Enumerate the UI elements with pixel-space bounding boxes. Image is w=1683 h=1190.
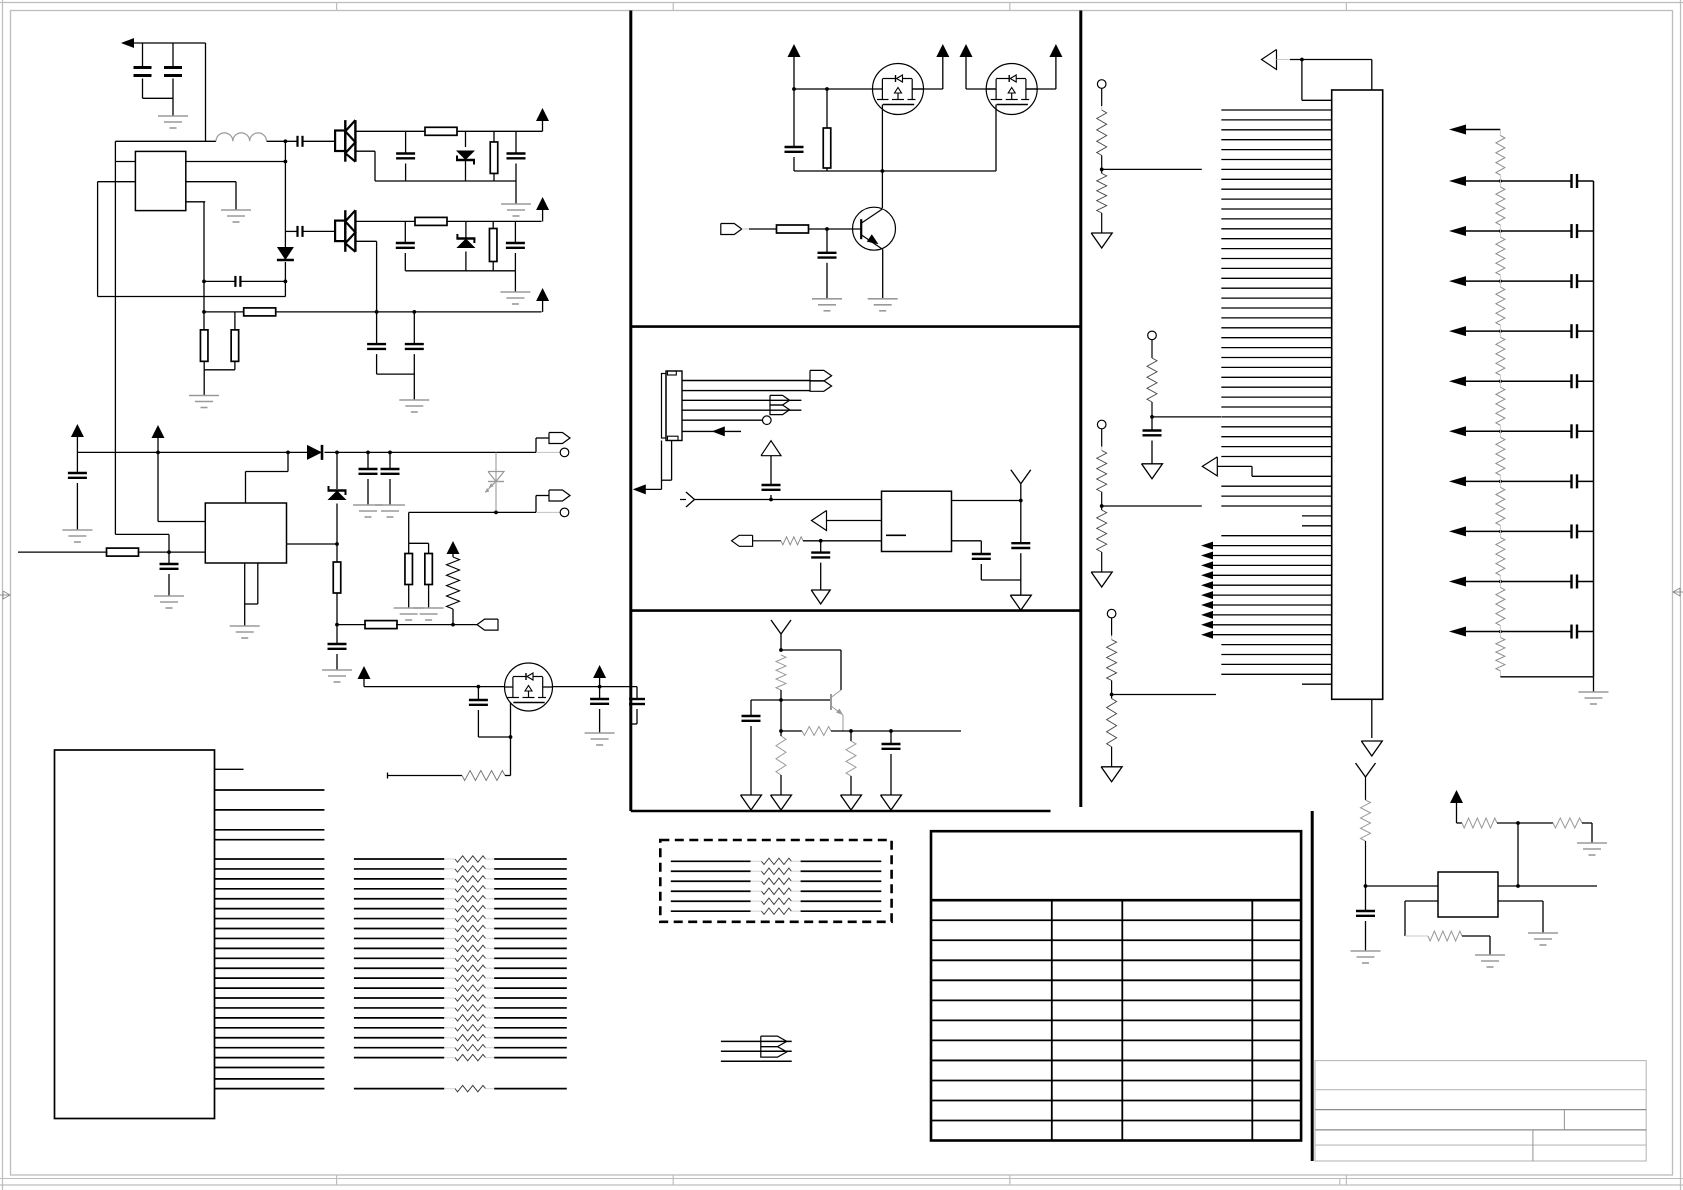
ground	[353, 505, 383, 517]
wire	[514, 271, 516, 292]
wire	[952, 541, 982, 554]
resistor RD4b	[1107, 695, 1117, 767]
wire ch1 return	[355, 151, 516, 181]
wire gate Q3	[881, 105, 883, 209]
wire pin1	[682, 380, 810, 382]
node open circle	[560, 448, 569, 457]
resistor R22	[1361, 800, 1371, 886]
wire bus AC	[115, 140, 297, 142]
wire	[779, 729, 961, 733]
resistor R7	[231, 330, 239, 362]
ground	[741, 795, 762, 810]
title block	[1315, 1061, 1646, 1161]
wire	[325, 451, 537, 455]
wire	[142, 43, 144, 98]
wire drain	[553, 685, 638, 689]
wire	[492, 221, 494, 270]
capacitor C3	[298, 136, 303, 147]
capacitor C19	[629, 687, 645, 724]
wire	[536, 496, 549, 513]
connector J10	[770, 395, 790, 414]
wire	[337, 623, 477, 627]
capacitor C1	[134, 68, 152, 76]
dashed option box	[660, 840, 891, 922]
wire	[409, 585, 429, 609]
wire	[204, 280, 235, 282]
wire	[536, 451, 561, 453]
wire	[515, 181, 517, 204]
wire	[753, 540, 781, 542]
resistor R2	[490, 142, 498, 174]
wire ch2 bus	[405, 270, 515, 272]
wire	[721, 1040, 792, 1042]
wire	[364, 685, 504, 689]
wire RD1	[1100, 168, 1202, 172]
resistor R4	[489, 229, 497, 262]
wire	[1582, 823, 1592, 843]
diode D5	[277, 247, 294, 260]
ground	[501, 204, 531, 216]
border zone marker right	[1673, 588, 1683, 596]
capacitor C10	[405, 312, 424, 374]
power flag +V12	[1450, 790, 1463, 823]
power flag +V9	[936, 44, 949, 89]
wire	[1462, 936, 1490, 955]
wire	[409, 512, 429, 553]
wire	[205, 43, 207, 141]
border zone ticks	[337, 3, 1347, 1186]
ground	[154, 596, 184, 608]
wire	[912, 88, 943, 90]
wire	[514, 221, 516, 270]
resistor R20	[776, 731, 786, 795]
capacitor C22	[762, 485, 781, 500]
ground	[1528, 933, 1558, 945]
ground	[62, 530, 92, 542]
wire	[240, 280, 287, 284]
wire	[779, 648, 841, 690]
connector J3	[477, 619, 498, 630]
ground	[394, 608, 424, 620]
zener Z2	[456, 221, 475, 270]
capacitor C23	[811, 541, 830, 590]
resistor R19	[802, 727, 831, 736]
wire	[721, 1050, 792, 1052]
power flag +V1	[536, 108, 549, 131]
capacitor C2	[164, 68, 182, 76]
capacitor C27	[882, 731, 901, 795]
resistor R25	[1428, 931, 1462, 941]
wire	[143, 97, 174, 99]
ground	[500, 292, 530, 304]
connector J5	[662, 371, 683, 441]
resistor R6	[200, 330, 208, 362]
wire	[966, 88, 996, 90]
wire	[284, 139, 288, 296]
resistor R13	[425, 554, 433, 585]
ground	[158, 116, 188, 128]
wire	[515, 131, 517, 181]
ground	[1579, 692, 1609, 704]
mcu pins	[1221, 110, 1331, 674]
wire pin2	[682, 390, 810, 392]
wire pin6	[682, 430, 741, 432]
connector J6	[732, 535, 753, 546]
power flag +V6	[358, 666, 371, 687]
capacitor C26	[742, 700, 761, 795]
capacitor C28	[1143, 417, 1162, 464]
capacitor C24	[972, 554, 991, 580]
net stub	[680, 492, 695, 507]
zener Z1	[456, 131, 475, 181]
power flag +V4	[71, 424, 84, 452]
wire main	[695, 498, 882, 502]
wire pin	[186, 161, 286, 163]
table revision	[931, 831, 1301, 1140]
resistor R8	[107, 548, 139, 556]
ground	[189, 396, 219, 408]
wire gate	[509, 703, 513, 776]
wire	[536, 511, 561, 513]
transformer T1	[135, 151, 185, 210]
resistor R16	[777, 225, 809, 233]
wire pin5	[682, 419, 763, 421]
wire	[388, 773, 463, 779]
wire mcu gnd	[1371, 699, 1373, 738]
resistor R15	[823, 89, 831, 171]
ground	[585, 733, 615, 745]
section divider horizontal 1	[631, 325, 1081, 328]
wire RD4	[1110, 693, 1216, 697]
ground	[1010, 595, 1031, 610]
mcu pins short	[1302, 516, 1332, 684]
resistor RD3a	[1097, 447, 1107, 507]
ground	[375, 505, 405, 517]
capacitor C18	[590, 687, 609, 733]
resistor RD1b	[1097, 169, 1107, 233]
antenna ANT3	[1356, 763, 1376, 800]
regulator U1	[205, 503, 286, 563]
node input RD3	[1097, 420, 1106, 446]
wire	[721, 1060, 792, 1062]
led LED1	[485, 452, 504, 512]
wire out2	[355, 220, 541, 222]
ic U4	[1438, 872, 1498, 917]
node input RD2	[1148, 331, 1157, 358]
resistor R14	[462, 771, 505, 781]
wire pin stub	[215, 768, 244, 770]
capacitor C21	[818, 229, 837, 299]
wire	[803, 539, 882, 543]
power flag +V8	[788, 44, 801, 89]
resistor R3	[415, 217, 447, 225]
wire	[493, 131, 495, 181]
wire bus A	[98, 296, 286, 298]
transistor Q1	[853, 207, 896, 250]
capacitor C9	[367, 344, 386, 374]
resistor RD2a	[1147, 358, 1157, 417]
capacitor C5	[507, 154, 526, 159]
wire	[172, 43, 174, 116]
wire pin3	[682, 399, 801, 401]
wire	[202, 202, 206, 330]
wire	[1405, 901, 1438, 936]
ground	[841, 795, 862, 810]
wire pin	[186, 182, 236, 210]
ground	[1577, 843, 1607, 855]
wire RD2	[1150, 415, 1221, 419]
section divider vertical left	[629, 11, 632, 812]
wire	[1302, 60, 1332, 101]
wire jack1	[536, 438, 549, 452]
wire RD3	[1100, 504, 1202, 508]
resistor RD3b	[1097, 506, 1107, 572]
capacitor C25	[1011, 543, 1030, 595]
antenna ANT2	[771, 620, 791, 650]
resistor R12	[405, 554, 413, 585]
wire	[285, 230, 297, 232]
resistor R21	[846, 731, 856, 795]
wire	[204, 361, 235, 395]
ground RD4	[1101, 767, 1122, 782]
ground RD2	[1142, 464, 1163, 479]
ground	[1361, 741, 1382, 756]
wire base	[751, 698, 831, 702]
resistor R5	[244, 308, 276, 316]
resistor R18	[776, 655, 786, 700]
resistor R1	[425, 127, 457, 135]
wire bus	[1593, 181, 1595, 692]
ground	[399, 400, 429, 412]
capacitor C20	[785, 89, 804, 171]
wire bus	[794, 169, 996, 173]
ground	[868, 299, 898, 311]
wire ladder rows	[1499, 179, 1594, 633]
rf ic U2	[882, 491, 952, 551]
node arrows ladder	[1449, 125, 1500, 637]
power flag +V7	[593, 665, 606, 687]
wire gnd pins	[245, 563, 258, 626]
wire pin4	[682, 409, 801, 411]
mosfet Q3	[873, 64, 924, 115]
zener Z3	[328, 452, 347, 544]
ground RD3	[1091, 572, 1112, 587]
power flag open	[761, 441, 781, 485]
wire emitter	[882, 249, 884, 298]
section divider horizontal 2	[631, 609, 1081, 612]
connector J4	[55, 750, 215, 1119]
node triangle in U3	[1202, 457, 1331, 476]
capacitor C14	[381, 452, 400, 505]
wire	[287, 542, 339, 546]
node arrow	[633, 484, 646, 494]
wire pin	[186, 201, 205, 203]
wire	[478, 736, 510, 738]
wire	[114, 141, 116, 534]
connector J2	[549, 490, 570, 501]
capacitor C17	[469, 687, 488, 737]
resistor array RN1	[354, 856, 567, 1061]
resistor R23	[1462, 818, 1497, 828]
wire	[1498, 901, 1543, 933]
capacitor C11	[235, 276, 240, 287]
wire	[742, 228, 749, 230]
border zone marker left	[0, 591, 10, 599]
wire jack2 bus	[409, 511, 536, 515]
resistor R24	[1553, 818, 1582, 828]
wire	[792, 87, 873, 91]
wire input	[18, 550, 205, 554]
wire	[404, 221, 406, 270]
connector J7	[761, 1036, 787, 1057]
wire	[1026, 88, 1056, 90]
wire	[952, 499, 1023, 503]
ground	[771, 795, 792, 810]
resistor R11	[447, 541, 460, 625]
capacitor C12	[68, 452, 87, 530]
ground	[812, 299, 842, 311]
wire	[97, 182, 99, 297]
wire emitter	[842, 715, 844, 731]
diode D6	[307, 445, 322, 460]
wire	[303, 230, 336, 232]
node VCC1 arrow	[121, 38, 206, 48]
node open circle	[560, 508, 569, 517]
connector J8	[721, 224, 742, 235]
wire	[303, 140, 336, 142]
resistor R10	[365, 621, 397, 629]
wire	[1457, 822, 1463, 824]
node triangle in	[812, 511, 882, 531]
power flag +V2	[536, 197, 549, 221]
mcu U3	[1332, 90, 1383, 699]
capacitor C15	[160, 552, 179, 596]
capacitor C8	[506, 243, 525, 248]
section divider vertical right	[1079, 11, 1082, 808]
node input RD4	[1107, 609, 1116, 635]
wire harness pins	[215, 790, 325, 1089]
wire	[405, 131, 407, 181]
wire	[981, 579, 1021, 581]
ground	[811, 590, 830, 604]
section divider vertical table	[1311, 811, 1314, 1161]
capacitor C7	[396, 243, 415, 248]
capacitor C6	[298, 226, 303, 237]
ground	[230, 626, 260, 638]
wire out1	[355, 130, 542, 132]
resistor RD4a	[1107, 636, 1117, 695]
resistor array RN3	[671, 858, 882, 914]
transistor Q5	[831, 690, 843, 715]
wire base	[749, 227, 861, 231]
wire	[505, 775, 511, 777]
capacitor bank CB	[1572, 174, 1578, 639]
ground	[881, 795, 902, 810]
wire gate Q4	[995, 105, 997, 172]
wire pin	[115, 161, 135, 163]
ground	[221, 210, 251, 222]
mosfet Q2	[505, 663, 553, 711]
ground	[322, 670, 352, 682]
wire ch2 return	[355, 241, 378, 344]
node input RD1	[1097, 80, 1106, 106]
antenna ANT1	[1011, 470, 1031, 544]
wire	[377, 374, 415, 400]
connector J1	[549, 433, 570, 444]
ground RD1	[1091, 233, 1112, 248]
wire fb loop	[246, 452, 289, 503]
resistor RD1a	[1097, 106, 1107, 169]
capacitor C13	[359, 452, 378, 505]
mcu pins arrows	[1201, 542, 1332, 639]
wire bus2	[77, 451, 307, 455]
wire main return	[202, 310, 541, 314]
resistor R9	[333, 544, 341, 625]
power flag +V5	[152, 425, 165, 522]
wire	[1497, 821, 1553, 825]
wire	[115, 534, 169, 552]
wire	[781, 700, 802, 731]
ground	[1475, 955, 1505, 967]
diode pack D1	[335, 120, 355, 162]
wire	[234, 312, 236, 330]
node open circle	[763, 416, 772, 425]
resistor RN2	[354, 1085, 567, 1091]
resistor R17	[781, 537, 803, 545]
wire	[158, 521, 205, 523]
wire pin	[98, 181, 136, 183]
wire	[1371, 60, 1373, 91]
wire	[1517, 823, 1519, 886]
power flag +V3	[536, 288, 549, 312]
capacitor C4	[396, 154, 415, 159]
resistor chain RN4	[1496, 130, 1505, 677]
connector J9	[810, 370, 832, 391]
capacitor C16	[328, 623, 347, 670]
wire stub	[645, 441, 672, 490]
ground	[414, 608, 444, 620]
wire out	[1498, 884, 1597, 888]
power flag +V10	[960, 44, 973, 89]
diode pack D2	[335, 210, 355, 252]
wire	[1364, 884, 1438, 888]
node arrow	[712, 426, 725, 436]
border bottom lines	[0, 1179, 1683, 1186]
node triangle U3	[1262, 50, 1372, 70]
ground	[1351, 951, 1381, 963]
capacitor C29	[1356, 886, 1375, 951]
section divider horizontal 3	[631, 810, 1051, 813]
mosfet Q4	[986, 64, 1037, 115]
power flag +V11	[1049, 44, 1062, 89]
inductor L1	[216, 133, 266, 141]
wire	[1500, 676, 1593, 678]
